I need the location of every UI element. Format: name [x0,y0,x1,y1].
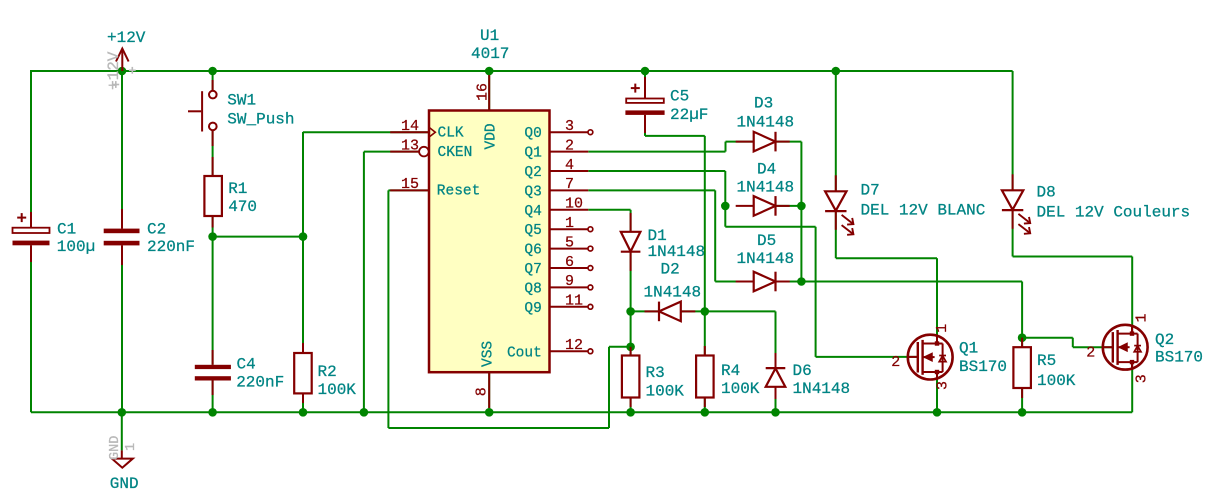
svg-text:D7: D7 [861,182,880,200]
svg-text:8: 8 [474,387,491,396]
svg-text:1N4148: 1N4148 [737,113,795,131]
svg-text:1N4148: 1N4148 [644,284,702,302]
svg-text:1N4148: 1N4148 [793,380,851,398]
svg-text:Q5: Q5 [524,223,541,239]
svg-text:220nF: 220nF [147,238,195,256]
svg-text:100K: 100K [646,383,685,401]
svg-text:16: 16 [475,83,492,101]
svg-text:R2: R2 [318,363,337,381]
svg-text:Q8: Q8 [524,281,541,297]
svg-text:R1: R1 [228,180,247,198]
svg-text:Q9: Q9 [524,301,541,317]
svg-text:12: 12 [565,337,583,354]
svg-text:3: 3 [934,381,951,390]
svg-text:100µ: 100µ [57,238,95,256]
svg-text:3: 3 [565,118,574,135]
svg-text:BS170: BS170 [959,358,1007,376]
svg-text:DEL 12V Couleurs: DEL 12V Couleurs [1037,203,1191,221]
svg-text:D8: D8 [1037,184,1056,202]
svg-text:Q4: Q4 [524,204,541,220]
svg-text:CLK: CLK [438,126,464,142]
svg-text:1: 1 [934,324,951,333]
svg-text:BS170: BS170 [1155,349,1203,367]
svg-text:4: 4 [565,157,574,174]
svg-text:D4: D4 [757,160,776,178]
svg-text:2: 2 [891,354,900,371]
svg-text:11: 11 [565,293,583,310]
svg-text:100K: 100K [318,381,357,399]
svg-text:9: 9 [565,273,574,290]
svg-text:7: 7 [565,176,574,193]
svg-text:R3: R3 [646,364,665,382]
svg-text:6: 6 [565,254,574,271]
svg-text:SW_Push: SW_Push [227,111,294,129]
svg-text:2: 2 [565,137,574,154]
svg-text:Q6: Q6 [524,243,541,259]
svg-text:VDD: VDD [484,123,500,149]
svg-text:R5: R5 [1037,352,1056,370]
svg-text:1: 1 [124,443,139,451]
svg-text:Q1: Q1 [959,339,978,357]
svg-text:DEL 12V BLANC: DEL 12V BLANC [861,201,986,219]
svg-text:220nF: 220nF [236,374,284,392]
svg-text:10: 10 [565,196,583,213]
svg-text:Q7: Q7 [524,262,541,278]
svg-text:CKEN: CKEN [438,145,473,161]
svg-text:R4: R4 [721,362,740,380]
svg-text:3: 3 [1133,374,1150,383]
svg-text:15: 15 [401,176,419,193]
svg-text:Q3: Q3 [524,184,541,200]
svg-text:1: 1 [565,215,574,232]
svg-text:GND: GND [110,475,139,493]
svg-text:Cout: Cout [507,345,542,361]
svg-text:4017: 4017 [471,45,509,63]
svg-text:C1: C1 [57,221,76,239]
svg-text:Q1: Q1 [524,146,541,162]
svg-text:D3: D3 [754,94,773,112]
svg-text:22µF: 22µF [670,106,708,124]
svg-text:5: 5 [565,234,574,251]
svg-text:470: 470 [228,198,257,216]
svg-text:13: 13 [401,137,419,154]
svg-text:D5: D5 [757,232,776,250]
svg-text:100K: 100K [721,380,760,398]
svg-text:2: 2 [1086,344,1095,361]
svg-text:1: 1 [1133,313,1150,322]
svg-text:1N4148: 1N4148 [648,243,706,261]
svg-text:SW1: SW1 [227,91,256,109]
svg-text:Q0: Q0 [524,126,541,142]
svg-text:Q2: Q2 [1155,331,1174,349]
svg-text:D2: D2 [661,260,680,278]
svg-text:C5: C5 [670,88,689,106]
svg-text:VSS: VSS [481,341,497,367]
svg-text:GND: GND [108,436,123,460]
svg-text:C2: C2 [147,221,166,239]
svg-text:100K: 100K [1037,372,1076,390]
svg-text:C4: C4 [237,356,256,374]
svg-text:1N4148: 1N4148 [737,178,795,196]
svg-text:Reset: Reset [437,184,481,200]
svg-text:U1: U1 [480,27,499,45]
svg-text:1N4148: 1N4148 [737,250,795,268]
svg-text:14: 14 [401,118,419,135]
svg-text:+12V: +12V [107,29,146,47]
svg-text:D6: D6 [793,362,812,380]
svg-text:Q2: Q2 [524,165,541,181]
